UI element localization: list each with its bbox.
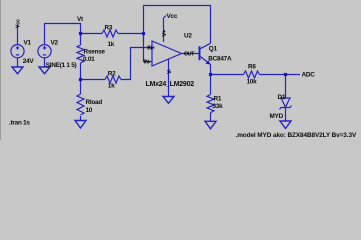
wire V1 bottom lead [17,58,19,67]
ground under op-amp V- [163,97,174,104]
wire junction to R6 [211,74,244,76]
resistor R2 (horizontal) [105,76,121,83]
wire R3 to node [118,33,144,35]
wire V1 top lead [17,25,19,45]
svg-text:V-: V- [167,69,173,74]
wire Rsense to junction [80,63,82,80]
svg-text:1k: 1k [108,82,115,89]
ground under V2 [39,67,50,74]
wire op-amp V+ lead from Vcc flag [163,18,165,42]
resistor R1 (vertical) [207,95,214,113]
svg-text:Rload: Rload [86,99,103,106]
junction dot R3/rail node [142,32,145,35]
ground under R1 [205,121,216,129]
svg-text:ADC: ADC [302,71,316,78]
svg-text:33k: 33k [213,103,224,110]
junction dot emitter/R1/R6 [209,73,212,76]
voltage source V2 [38,45,51,58]
junction dot node Vt [79,32,82,35]
svg-text:Q1: Q1 [209,45,218,52]
wire collector rail [144,6,211,44]
wire op-amp V- lead to ground [168,59,170,97]
svg-text:0.01: 0.01 [83,56,95,63]
wire D1 to ground [285,108,287,122]
ground under Rload [75,121,86,129]
svg-text:LMx24_LM2902: LMx24_LM2902 [146,81,195,88]
wire junction to R2 [81,79,106,81]
svg-text:BC847A: BC847A [208,56,232,63]
resistor Rsense (vertical) [77,45,84,63]
transistor Q1 emitter [201,57,211,65]
wire junction down to D1 [285,75,287,99]
svg-text:.model MYD ako: BZX84B8V2LY Bv: .model MYD ako: BZX84B8V2LY Bv=3.3V [236,132,357,139]
wire Rload to ground [80,116,82,121]
wire V2 bottom lead [44,58,46,67]
transistor Q1 emitter arrowhead [206,60,211,64]
resistor R3 (horizontal) [102,30,118,37]
svg-text:MYD: MYD [270,113,284,120]
zener diode D1 [281,98,290,107]
wire R2 up to IN+ [121,48,152,80]
svg-text:R2: R2 [108,70,116,77]
ground under D1 [280,121,291,129]
wire R6 to ADC [260,74,301,76]
wire op-amp output to Q1 base [182,53,199,55]
svg-text:Rsense: Rsense [84,49,106,56]
svg-text:V1: V1 [24,40,32,47]
svg-text:Vcc: Vcc [167,13,178,20]
svg-text:Vcc: Vcc [16,19,22,28]
svg-text:R6: R6 [248,64,256,71]
svg-text:D1: D1 [278,94,286,101]
svg-text:V2: V2 [51,40,59,47]
svg-text:24V: 24V [23,58,35,65]
svg-text:1k: 1k [108,41,115,48]
svg-text:R3: R3 [105,25,113,32]
junction dot Rsense/Rload/R2 [79,78,82,81]
svg-text:IN+: IN+ [147,45,154,51]
voltage source V1 [11,45,24,58]
svg-text:OUT: OUT [184,52,195,58]
wire node down to IN- [144,34,153,62]
svg-text:.tran 1s: .tran 1s [9,119,30,126]
svg-text:10: 10 [86,107,93,114]
wire junction to R1 [210,75,212,95]
wire emitter down to junction [210,65,212,75]
junction dot R6/D1/ADC [284,73,287,76]
ground under V1 [12,67,23,74]
transistor Q1 base bar [199,46,201,60]
svg-text:IN-: IN- [144,59,150,65]
wire R1 to ground [210,113,212,122]
wire node Vt to R3 [81,33,103,35]
wire V2 top lead and run to node Vt [45,24,81,46]
op-amp U2 triangle [152,41,182,66]
transistor Q1 collector [201,43,211,48]
svg-text:SINE(1 1 5): SINE(1 1 5) [46,62,77,69]
wire junction to Rload [80,80,82,95]
resistor Rload (vertical) [77,94,84,115]
svg-text:10k: 10k [247,79,258,86]
left window edge [0,0,1,140]
svg-text:R1: R1 [214,96,222,103]
Vcc flag tick [164,16,167,19]
svg-text:U2: U2 [184,33,192,40]
svg-text:V+: V+ [162,29,168,37]
resistor R6 (horizontal) [244,71,260,78]
